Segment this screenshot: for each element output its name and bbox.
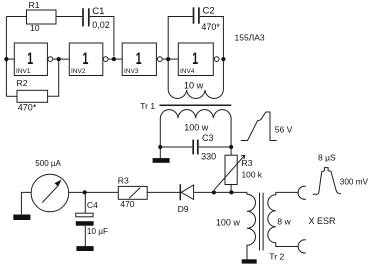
wire C2 left [168, 17, 192, 60]
wire R1 top row [6, 16, 82, 18]
svg-text:56 V: 56 V [275, 124, 293, 134]
svg-text:Tr 2: Tr 2 [269, 251, 284, 261]
svg-text:C3: C3 [202, 133, 214, 143]
wire C2 right [200, 17, 224, 60]
wire left vertical bus [5, 17, 7, 97]
svg-text:100 w: 100 w [184, 122, 209, 132]
inverter INV2 (155LA3 gate, "1") [69, 43, 108, 76]
svg-text:10 w: 10 w [184, 80, 204, 90]
resistor R2 [17, 78, 48, 112]
node C [166, 57, 170, 61]
ground C4 [76, 246, 93, 251]
transformer Tr1 secondary winding 100w [160, 110, 231, 147]
wire R2 left [6, 95, 17, 97]
svg-text:C4: C4 [87, 200, 98, 210]
svg-text:300 mV: 300 mV [340, 177, 369, 186]
node H [212, 190, 216, 194]
transformer Tr1 core [160, 104, 232, 106]
svg-text:10: 10 [30, 23, 40, 33]
potentiometer R3 100k [230, 147, 232, 155]
node D [221, 57, 225, 61]
svg-text:470: 470 [120, 199, 135, 209]
node B1 [57, 57, 61, 61]
node G [83, 190, 87, 194]
svg-text:R1: R1 [29, 0, 40, 10]
capacitor C2 [194, 7, 199, 23]
svg-text:8 w: 8 w [277, 217, 291, 227]
svg-text:100 k: 100 k [242, 170, 263, 180]
svg-text:C2: C2 [203, 5, 215, 16]
svg-text:1: 1 [192, 48, 198, 67]
svg-text:470*: 470* [201, 22, 220, 32]
inverter INV4 (155LA3 gate, "1") [178, 43, 219, 76]
waveform pulse with value labels 8 µS / 300 mV [313, 168, 341, 195]
svg-text:0,02: 0,02 [92, 20, 110, 30]
transformer Tr1 primary winding 10w [168, 59, 223, 98]
wire D9 to node H [194, 191, 214, 193]
wire C3 left [160, 146, 192, 148]
wire C3 right [199, 146, 231, 148]
waveform sawtooth with value label 56 V [241, 112, 277, 141]
svg-text:470*: 470* [18, 103, 37, 113]
node A [4, 57, 8, 61]
wire node H to Tr2 [214, 191, 247, 193]
diode D9 [179, 184, 181, 200]
wire INV1 out to INV2 [53, 58, 69, 60]
meter 500uA [31, 174, 69, 212]
svg-text:8 µS: 8 µS [318, 152, 336, 162]
wire C4 to ground [84, 226, 86, 246]
svg-text:R3: R3 [242, 158, 253, 168]
svg-text:X ESR: X ESR [309, 216, 337, 226]
svg-text:D9: D9 [178, 204, 189, 214]
ground Tr2 [242, 259, 257, 263]
transformer Tr2 core [260, 193, 264, 251]
node F [229, 145, 233, 149]
node E [158, 145, 162, 149]
node I [229, 190, 233, 194]
wire C1 to node B [90, 17, 114, 57]
svg-text:C1: C1 [92, 6, 104, 17]
svg-text:R3: R3 [118, 175, 129, 185]
capacitor C3 [193, 140, 198, 155]
capacitor C4 [84, 192, 86, 213]
wire meter to R3 [69, 191, 119, 193]
svg-text:500 µA: 500 µA [35, 159, 61, 168]
wire R3 to D9 [147, 191, 180, 193]
svg-text:INV4: INV4 [180, 68, 195, 75]
svg-text:Tr 1: Tr 1 [140, 101, 155, 111]
terminal upper [298, 186, 306, 199]
svg-text:155ЛА3: 155ЛА3 [235, 33, 265, 43]
inverter INV1 (155LA3 gate, "1") [14, 43, 52, 76]
svg-text:1: 1 [82, 48, 88, 67]
terminal lower [298, 240, 306, 253]
svg-text:INV2: INV2 [71, 68, 86, 75]
wire node A to INV1 [6, 58, 14, 60]
wire INV3 out to INV4 [163, 58, 179, 60]
wire INV2 out to INV3 [108, 58, 122, 60]
node B [112, 57, 116, 61]
wiper arrow R3 [214, 155, 245, 190]
wire meter left to ground [21, 192, 31, 214]
capacitor C1 [83, 8, 89, 26]
svg-text:1: 1 [27, 48, 33, 67]
wire R2 right [48, 60, 59, 96]
resistor R1 [27, 10, 57, 24]
transformer Tr2 primary winding 100w [247, 192, 256, 259]
ground under Tr1 [159, 147, 161, 158]
transformer Tr2 secondary winding 8w [268, 192, 299, 246]
svg-text:10 µF: 10 µF [87, 227, 108, 236]
svg-text:1: 1 [136, 48, 142, 67]
svg-text:R2: R2 [17, 78, 28, 88]
svg-text:INV1: INV1 [16, 68, 31, 75]
ground meter [13, 215, 30, 221]
inverter INV3 (155LA3 gate, "1") [122, 43, 162, 76]
svg-text:INV3: INV3 [124, 68, 139, 75]
svg-text:330: 330 [201, 152, 216, 162]
resistor R3 470 [118, 186, 147, 199]
svg-text:100 w: 100 w [216, 217, 241, 227]
